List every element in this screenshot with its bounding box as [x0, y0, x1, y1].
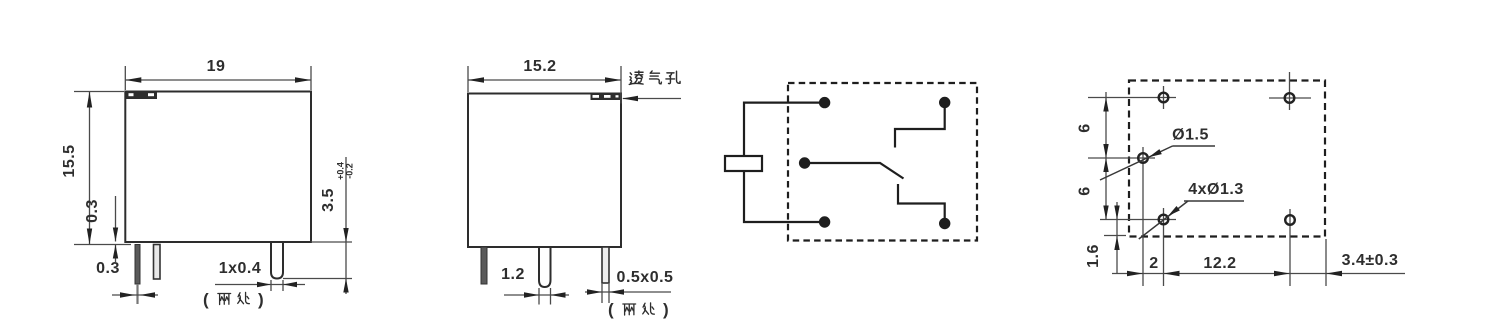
label （两处） below 1x0.4 — [203, 290, 264, 309]
dimension 15.5 (left height) — [61, 92, 131, 245]
wire: NO contact — [898, 184, 945, 224]
dimension 6 (lower) — [1077, 158, 1109, 220]
svg-text:0.5x0.5: 0.5x0.5 — [617, 269, 674, 286]
relay enclosure (dashed box) — [788, 83, 977, 241]
leader: dia 1.5 hole callout — [1100, 127, 1215, 181]
dimension 0.5x0.5 (side pin section) — [585, 269, 673, 303]
dimension 19 (top width) — [125, 58, 311, 90]
svg-text:3.4±0.3: 3.4±0.3 — [1342, 252, 1399, 269]
svg-text:): ) — [663, 300, 669, 319]
vent hole detail at top-right of case — [591, 94, 622, 101]
relay body outline (front view) — [125, 92, 311, 243]
hole top-left — [1159, 93, 1169, 103]
svg-text:(: ( — [203, 290, 209, 309]
node: NC terminal top-right — [939, 97, 950, 108]
svg-text:15.5: 15.5 — [61, 144, 78, 177]
vent notch detail at top-left of case — [126, 93, 157, 100]
pin 1 (left coil pin, solid flat) — [135, 245, 140, 305]
svg-text:0.3: 0.3 — [84, 199, 101, 223]
svg-text:3.5: 3.5 — [320, 188, 337, 212]
centre-line ticks through holes — [1088, 97, 1176, 99]
svg-text:19: 19 — [207, 58, 226, 75]
svg-text:6: 6 — [1077, 186, 1094, 195]
hole middle-left (coil pin, dia 1.5) — [1138, 153, 1148, 163]
hole bottom-right — [1285, 215, 1295, 225]
node: common terminal — [799, 157, 810, 168]
svg-text:4xØ1.3: 4xØ1.3 — [1188, 181, 1243, 198]
svg-text:-0.2: -0.2 — [345, 163, 355, 179]
svg-text:1x0.4: 1x0.4 — [219, 260, 262, 277]
dimension 1.2 (centre pin width) — [501, 266, 569, 305]
svg-text:): ) — [258, 290, 264, 309]
pin 2 (middle pin, outline) — [154, 245, 161, 280]
wire: coil top lead — [744, 103, 825, 156]
relay body outline (side view) — [468, 94, 621, 248]
svg-text:2: 2 — [1149, 255, 1158, 272]
hole top-right — [1285, 93, 1295, 103]
node: NO terminal bottom-right — [939, 218, 950, 229]
svg-text:1.2: 1.2 — [501, 266, 525, 283]
node: coil terminal bottom-left — [819, 216, 830, 227]
wire: NC contact — [895, 103, 945, 148]
pin 4 (left side pin, solid) — [481, 247, 487, 284]
relay outline (dashed) — [1129, 81, 1325, 237]
pin 6 (right side pin, outline) — [602, 247, 609, 283]
dimension 3.5 +0.4/-0.2 (pin length) — [283, 157, 355, 294]
svg-text:1.6: 1.6 — [1085, 244, 1102, 268]
label 透气孔 (vent hole) with leader arrow — [629, 71, 680, 84]
svg-text:(: ( — [608, 300, 614, 319]
svg-text:Ø1.5: Ø1.5 — [1172, 127, 1209, 144]
svg-text:0.3: 0.3 — [96, 260, 120, 277]
pin 3 (right contact pin, U outline) — [271, 242, 283, 279]
svg-text:15.2: 15.2 — [523, 58, 556, 75]
dimension 1.6 — [1085, 202, 1126, 274]
pin 5 (centre pin, U outline) — [539, 247, 551, 287]
coil — [725, 156, 762, 171]
svg-text:12.2: 12.2 — [1203, 255, 1236, 272]
wire: coil bottom lead — [744, 171, 825, 222]
dimension 0.3 (pin thickness, horizontal) — [96, 260, 158, 298]
bottom dimension line: 2 / 12.2 / 3.4±0.3 — [1112, 252, 1405, 276]
node: coil terminal top-left — [819, 97, 830, 108]
dimension 1x0.4 (pin section) — [215, 260, 305, 291]
dimension 15.2 (top width) — [468, 58, 621, 104]
dimension 0.3 (case stand-off, vertical) — [84, 196, 118, 262]
wire: common armature (switch blade) — [805, 163, 904, 179]
label （两处） below 0.5x0.5 — [608, 300, 669, 319]
svg-text:6: 6 — [1077, 123, 1094, 132]
leader: 4 x dia 1.3 holes callout — [1139, 181, 1244, 239]
dimension 6 (upper) — [1077, 92, 1109, 220]
hole bottom-left — [1159, 215, 1169, 225]
